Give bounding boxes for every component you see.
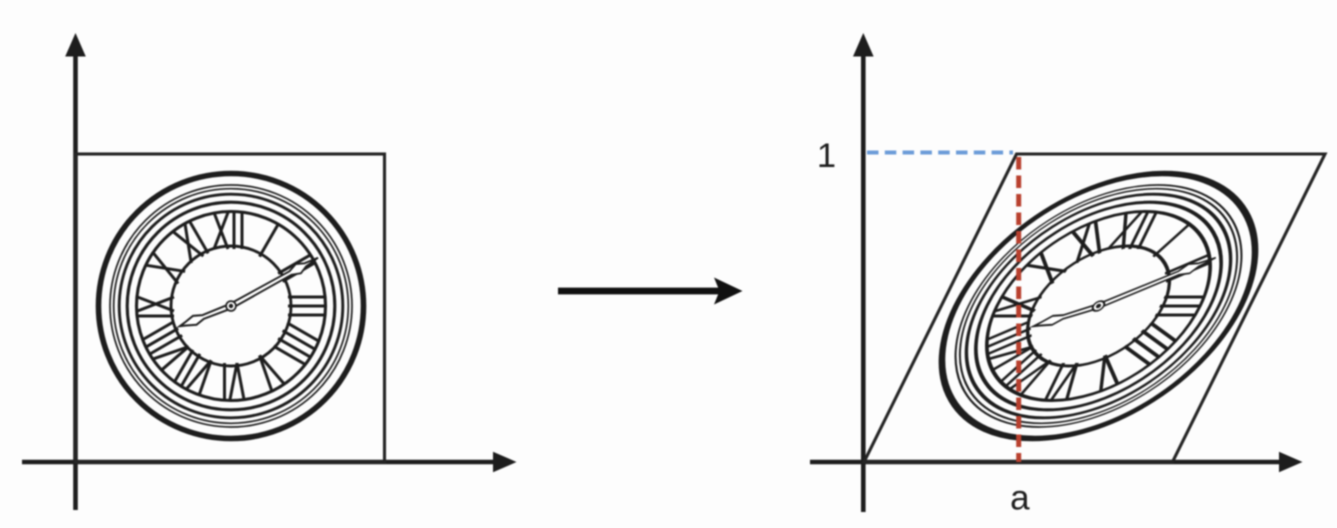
- sheared parallelogram: [864, 154, 1325, 462]
- svg-text:1: 1: [817, 137, 836, 175]
- left y-axis: [65, 33, 86, 510]
- svg-text:a: a: [1010, 479, 1030, 518]
- left clock: [99, 174, 364, 439]
- transformation arrow: [558, 278, 743, 305]
- right x-axis: [810, 452, 1303, 473]
- left x-axis: [22, 452, 517, 473]
- sheared clock: [891, 174, 1306, 439]
- right y-axis: [853, 33, 874, 512]
- blue dashed guide y=1: [867, 151, 1013, 155]
- red dashed guide x=a: [1016, 157, 1021, 462]
- unit square: [76, 154, 385, 462]
